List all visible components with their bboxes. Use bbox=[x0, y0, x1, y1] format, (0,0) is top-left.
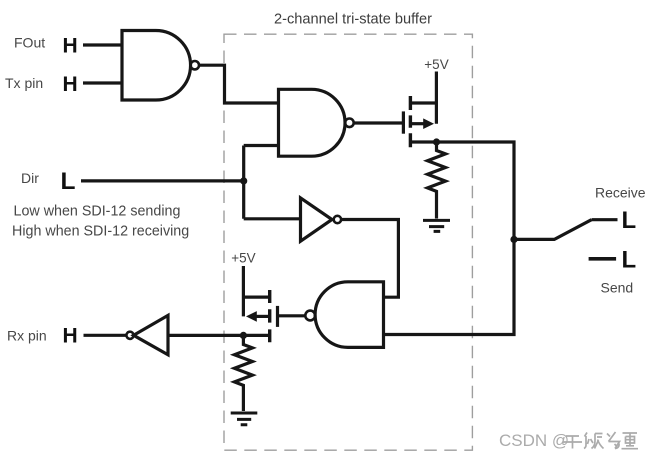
svg-text:L: L bbox=[622, 247, 637, 274]
svg-text:+5V: +5V bbox=[231, 250, 255, 265]
svg-text:2-channel tri-state buffer: 2-channel tri-state buffer bbox=[274, 12, 432, 28]
transistor Q1 source to +5V bbox=[410, 72, 436, 124]
nand gate U1 output bubble bbox=[191, 61, 199, 69]
wire Tx pin to NAND1 input B bbox=[83, 81, 122, 84]
junction Dir node bbox=[240, 177, 247, 184]
transistor Q1 body arrow bbox=[423, 118, 434, 129]
svg-text:H: H bbox=[63, 73, 78, 96]
wire U5 input from Q2 drain bbox=[168, 334, 270, 337]
nand gate U4 (mirrored) body bbox=[315, 282, 383, 348]
svg-text:Receive: Receive bbox=[595, 184, 646, 200]
svg-text:Tx pin: Tx pin bbox=[5, 75, 43, 91]
inverter U3 triangle bbox=[301, 198, 333, 241]
wire U1 output to U2 input A bbox=[199, 65, 279, 103]
junction Q1 drain / R1 bbox=[433, 138, 440, 145]
watermark hanzi strokes bbox=[563, 432, 638, 449]
wire FOut to NAND1 input A bbox=[83, 43, 122, 46]
resistor R1 bbox=[428, 142, 446, 219]
svg-text:Low when SDI-12 sending: Low when SDI-12 sending bbox=[14, 204, 181, 220]
junction Q2 drain / R2 bbox=[240, 332, 247, 339]
inverter U5 triangle (pointing left) bbox=[134, 315, 168, 354]
transistor Q1 body lead bbox=[410, 122, 424, 125]
transistor Q1 channel segments bbox=[409, 96, 412, 147]
transistor Q2 body lead bbox=[256, 315, 270, 318]
svg-text:FOut: FOut bbox=[14, 35, 45, 51]
wire Dir line bbox=[81, 179, 244, 182]
ground (R1) bbox=[423, 220, 450, 231]
transistor Q2 body arrow bbox=[246, 311, 257, 322]
switch SW1 receive contact bbox=[592, 218, 618, 221]
switch SW1 send contact bbox=[589, 257, 617, 261]
svg-text:L: L bbox=[622, 207, 637, 234]
svg-text:Send: Send bbox=[601, 280, 634, 296]
resistor R2 bbox=[234, 335, 252, 411]
svg-text:Rx pin: Rx pin bbox=[7, 328, 47, 344]
svg-text:High when SDI-12 receiving: High when SDI-12 receiving bbox=[12, 224, 189, 240]
wire Q1 drain to bus, bus down, to U4 input B bbox=[384, 142, 515, 335]
svg-text:H: H bbox=[63, 325, 78, 348]
transistor Q2 (P-MOSFET pull-up, mirrored) source to +5V bbox=[243, 266, 269, 316]
wire U2 output to Q1 gate bbox=[354, 121, 404, 124]
transistor Q2 gate bar bbox=[276, 306, 279, 327]
switch SW1 arm bbox=[514, 220, 592, 240]
nand gate U4 output bubble bbox=[305, 311, 315, 321]
svg-text:CSDN @: CSDN @ bbox=[499, 431, 569, 450]
transistor Q2 channel segments bbox=[268, 290, 271, 342]
svg-text:H: H bbox=[63, 34, 78, 57]
svg-text:+5V: +5V bbox=[424, 57, 448, 72]
nand gate U1 (FOut/Tx) body bbox=[122, 31, 191, 101]
wire U3 output to U4 input A bbox=[341, 220, 398, 298]
svg-text:L: L bbox=[61, 168, 76, 195]
transistor Q1 (P-MOSFET pull-up) gate bar bbox=[402, 111, 405, 133]
inverter U5 output bubble bbox=[126, 332, 133, 339]
nand gate U2 body bbox=[279, 89, 346, 156]
svg-text:Dir: Dir bbox=[21, 170, 39, 186]
wire U4 output to Q2 gate bbox=[278, 314, 306, 317]
ground (R2) bbox=[231, 413, 258, 425]
junction bus / switch arm bbox=[510, 236, 517, 243]
inverter U3 output bubble bbox=[334, 216, 341, 223]
nand gate U2 output bubble bbox=[345, 119, 354, 128]
wire Dir to U2 input B and inverter U3 input bbox=[244, 146, 301, 219]
wire Rx pin to inverter U5 output bbox=[84, 334, 127, 337]
tri-state buffer dashed box bbox=[224, 34, 472, 450]
